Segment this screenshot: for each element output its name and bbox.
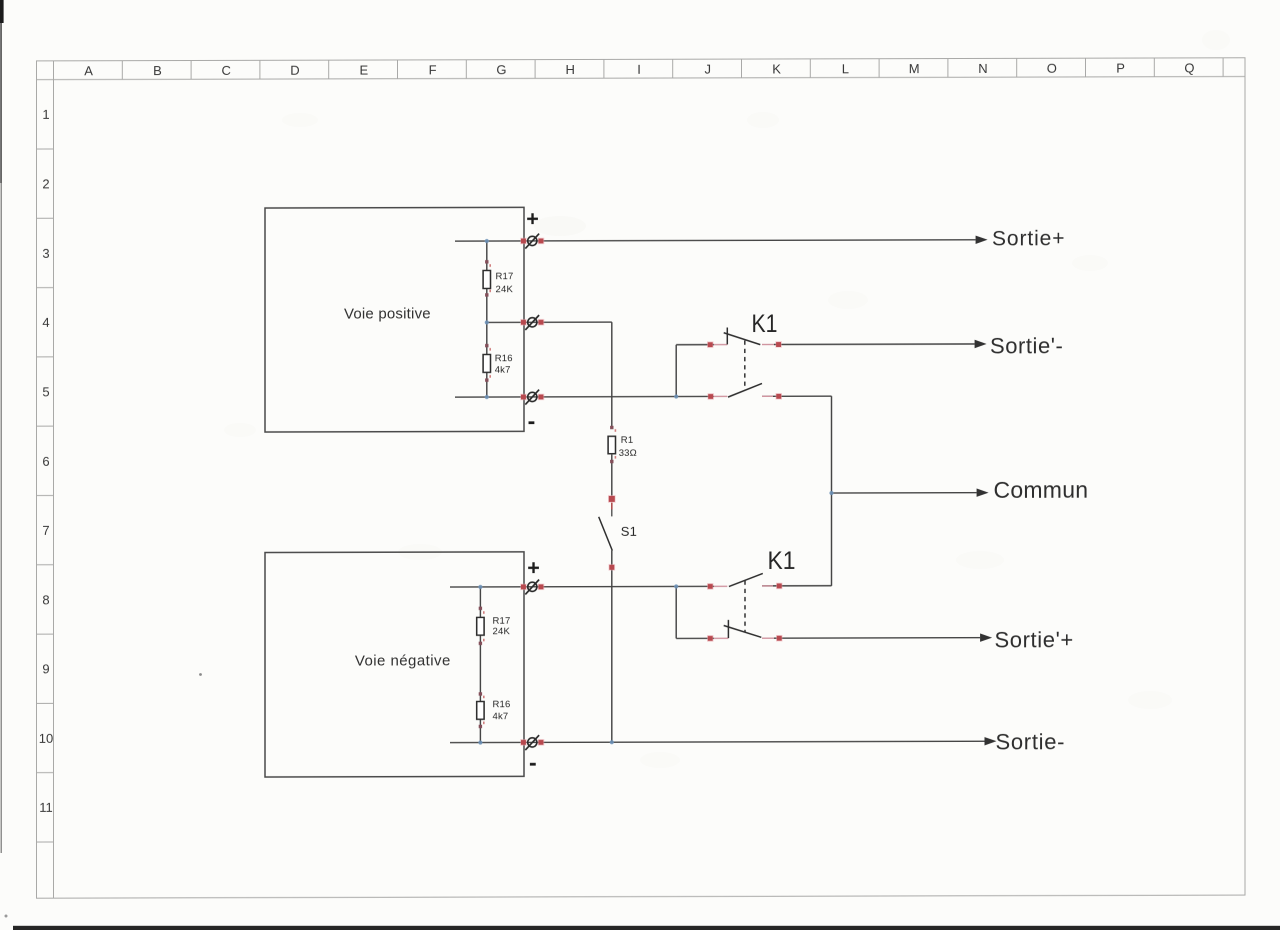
svg-text:6: 6 xyxy=(42,454,49,469)
svg-text:33Ω: 33Ω xyxy=(619,448,637,459)
svg-text:A: A xyxy=(84,63,93,78)
svg-text:O: O xyxy=(1047,61,1057,76)
svg-text:1: 1 xyxy=(42,107,49,122)
svg-text:-: - xyxy=(528,407,536,433)
svg-text:5: 5 xyxy=(42,384,49,399)
svg-text:P: P xyxy=(1116,61,1125,76)
svg-text:Voie positive: Voie positive xyxy=(344,305,431,322)
svg-text:9: 9 xyxy=(42,661,49,676)
svg-text:7: 7 xyxy=(42,523,49,538)
svg-text:Sortie'+: Sortie'+ xyxy=(995,627,1074,652)
svg-text:H: H xyxy=(566,62,575,77)
svg-text:F: F xyxy=(429,63,437,78)
svg-text:R17: R17 xyxy=(496,271,514,282)
svg-text:R16: R16 xyxy=(493,699,511,710)
svg-text:C: C xyxy=(222,63,231,78)
svg-text:R17: R17 xyxy=(493,616,511,627)
svg-text:K1: K1 xyxy=(768,547,796,575)
svg-text:4k7: 4k7 xyxy=(495,365,511,376)
svg-text:N: N xyxy=(978,61,987,76)
svg-text:10: 10 xyxy=(39,731,53,746)
svg-text:11: 11 xyxy=(39,800,52,815)
svg-text:E: E xyxy=(359,63,368,78)
svg-text:+: + xyxy=(527,556,540,580)
svg-text:Sortie-: Sortie- xyxy=(996,729,1066,754)
svg-text:4k7: 4k7 xyxy=(493,711,509,722)
svg-text:S1: S1 xyxy=(621,524,637,539)
svg-text:M: M xyxy=(909,61,920,76)
svg-text:Commun: Commun xyxy=(994,477,1089,503)
svg-text:4: 4 xyxy=(42,315,49,330)
svg-text:D: D xyxy=(290,63,299,78)
svg-text:24K: 24K xyxy=(493,626,511,637)
svg-text:Q: Q xyxy=(1184,61,1194,76)
svg-text:K: K xyxy=(772,62,781,77)
svg-text:L: L xyxy=(842,61,849,76)
svg-text:Voie négative: Voie négative xyxy=(355,652,451,669)
svg-text:2: 2 xyxy=(42,176,49,191)
svg-text:24K: 24K xyxy=(496,284,514,295)
svg-text:G: G xyxy=(496,62,506,77)
svg-text:B: B xyxy=(153,63,162,78)
svg-text:J: J xyxy=(705,62,712,77)
svg-text:R16: R16 xyxy=(495,353,513,364)
svg-text:3: 3 xyxy=(42,246,49,261)
svg-text:-: - xyxy=(529,749,537,775)
svg-text:+: + xyxy=(526,207,539,231)
svg-text:Sortie+: Sortie+ xyxy=(992,227,1065,250)
svg-text:K1: K1 xyxy=(752,310,778,338)
svg-text:I: I xyxy=(637,62,641,77)
svg-text:R1: R1 xyxy=(621,435,634,446)
svg-text:8: 8 xyxy=(42,592,49,607)
svg-text:Sortie'-: Sortie'- xyxy=(990,333,1063,358)
